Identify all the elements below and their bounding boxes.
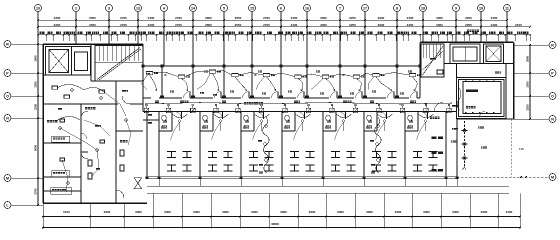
svg-text:3300: 3300	[54, 16, 61, 20]
balcony lines	[147, 178, 509, 193]
main wing top exterior wall	[142, 65, 422, 68]
riser squiggle room 6	[258, 117, 269, 174]
svg-text:14: 14	[191, 7, 195, 11]
elevator shaft left E2	[72, 47, 91, 76]
svg-text:2: 2	[75, 7, 77, 11]
corridor labels	[155, 101, 458, 119]
left block wiring	[55, 84, 131, 192]
svg-text:2400: 2400	[291, 16, 298, 20]
bottom dimension line 2 overall	[42, 222, 521, 229]
svg-text:8: 8	[396, 7, 398, 11]
svg-text:3300: 3300	[222, 210, 229, 214]
upper room small labels	[146, 71, 412, 97]
bathrooms	[159, 112, 418, 132]
svg-text:2900: 2900	[34, 55, 38, 61]
grid bubble column 14	[190, 5, 197, 67]
svg-text:3300: 3300	[104, 210, 111, 214]
grid bubble column 17	[362, 5, 369, 67]
left block interior walls	[43, 44, 143, 203]
right shaft	[450, 44, 480, 64]
left block exterior walls	[43, 44, 147, 203]
svg-text:7.10: 7.10	[519, 148, 524, 151]
grid bubble column 6	[278, 5, 285, 67]
svg-text:17: 17	[363, 7, 367, 11]
svg-text:2400: 2400	[148, 16, 155, 20]
svg-text:10: 10	[36, 7, 40, 11]
svg-text:18: 18	[421, 7, 425, 11]
svg-text:5: 5	[223, 7, 225, 11]
grid bubble column 5	[221, 5, 228, 67]
beds	[167, 152, 438, 172]
grid bubble column 3	[106, 5, 113, 45]
corridor wiring line	[145, 103, 452, 109]
svg-text:R: R	[551, 43, 554, 47]
svg-text:3300: 3300	[54, 23, 61, 27]
svg-text:2100: 2100	[515, 23, 522, 27]
svg-text:3000: 3000	[436, 16, 443, 20]
svg-text:9: 9	[455, 7, 457, 11]
left block equipment	[52, 86, 127, 184]
grid bubble column 8	[394, 5, 401, 67]
svg-text:3000: 3000	[320, 23, 327, 27]
right boundary dashed	[511, 119, 513, 177]
svg-text:2900: 2900	[526, 56, 530, 62]
svg-text:2850: 2850	[205, 16, 212, 20]
hourglass symbol	[134, 178, 141, 189]
grid bubble column 13	[135, 5, 142, 45]
svg-text:3300: 3300	[309, 210, 316, 214]
svg-text:2700: 2700	[34, 188, 38, 194]
svg-text:N: N	[6, 116, 9, 120]
left dimension line	[34, 43, 39, 206]
svg-text:3300: 3300	[251, 210, 258, 214]
grid bubble row P left	[4, 70, 43, 77]
dark equipment bars right rooms	[432, 137, 444, 172]
narrow shaft column	[143, 112, 159, 178]
svg-text:2250: 2250	[349, 23, 356, 27]
svg-text:2700: 2700	[263, 16, 270, 20]
svg-text:5100: 5100	[63, 210, 70, 214]
top dimension line C	[37, 32, 531, 42]
top dimension line B	[37, 23, 531, 28]
grid bubble column 19	[478, 5, 485, 43]
tank room square	[457, 64, 507, 120]
lower room wiring	[171, 113, 434, 140]
elevator shaft left E1	[46, 47, 72, 76]
left block room labels	[47, 90, 128, 194]
svg-text:2550: 2550	[235, 16, 242, 20]
svg-text:2700: 2700	[175, 23, 182, 27]
svg-text:16: 16	[305, 7, 309, 11]
svg-text:3: 3	[108, 7, 110, 11]
svg-text:2900: 2900	[378, 16, 385, 20]
svg-text:2200: 2200	[34, 104, 38, 110]
svg-text:2550: 2550	[89, 23, 96, 27]
svg-text:19: 19	[479, 7, 483, 11]
svg-text:3300: 3300	[452, 210, 459, 214]
right lobby	[420, 58, 461, 112]
corridor top wall	[143, 96, 420, 98]
svg-text:13: 13	[136, 7, 140, 11]
svg-text:11: 11	[505, 7, 509, 11]
grid bubble column 11	[504, 5, 511, 43]
grid bubble column 10	[35, 5, 42, 45]
svg-text:N: N	[551, 117, 554, 121]
upper room doors	[184, 92, 418, 99]
svg-text:2300: 2300	[526, 81, 530, 87]
tiny note right margin	[519, 148, 527, 178]
grid bubble column 7	[337, 5, 344, 67]
svg-text:2200: 2200	[526, 104, 530, 110]
grid bubble row R right	[514, 42, 557, 49]
svg-text:4: 4	[163, 7, 165, 11]
svg-text:46800: 46800	[271, 222, 279, 226]
grid bubble row L left	[4, 202, 43, 209]
svg-text:3000: 3000	[436, 23, 443, 27]
upper room partitions	[162, 67, 397, 98]
right dimension line	[526, 44, 531, 120]
grid bubble column 16	[304, 5, 311, 67]
N gridline wall right block	[457, 118, 514, 120]
grid bubble row N right	[514, 116, 557, 123]
right block labels	[466, 30, 479, 109]
svg-text:6: 6	[280, 7, 282, 11]
top dimension line A	[37, 16, 508, 21]
lower room doors	[174, 112, 428, 120]
left block lobby walls	[43, 44, 143, 104]
svg-text:M: M	[551, 175, 554, 179]
grid bubble column 9	[453, 5, 460, 43]
svg-text:2250: 2250	[465, 16, 472, 20]
svg-text:2700: 2700	[175, 16, 182, 20]
svg-text:7: 7	[339, 7, 341, 11]
lower room labels	[161, 121, 413, 129]
grid bubble row O left	[4, 93, 43, 100]
grid bubble row P right	[514, 70, 557, 77]
svg-text:2300: 2300	[34, 81, 38, 87]
svg-text:R: R	[6, 42, 9, 46]
svg-text:2400: 2400	[148, 23, 155, 27]
svg-text:3300: 3300	[135, 210, 142, 214]
svg-text:3300: 3300	[366, 210, 373, 214]
corridor distribution boxes	[144, 108, 451, 113]
svg-text:3300: 3300	[193, 210, 200, 214]
svg-text:O: O	[551, 94, 554, 98]
svg-text:3300: 3300	[395, 210, 402, 214]
bottom extension lines	[43, 194, 520, 229]
svg-text:2700: 2700	[120, 23, 127, 27]
grid bubble row R left	[4, 41, 43, 48]
corridor bottom wall	[143, 111, 457, 113]
left block door arcs	[81, 96, 130, 198]
svg-text:6000: 6000	[34, 145, 38, 151]
svg-text:2400: 2400	[491, 23, 498, 27]
svg-text:3300: 3300	[481, 210, 488, 214]
grid bubble column 18	[420, 5, 427, 43]
grid bubble column 2	[73, 5, 80, 45]
riser squiggle room 9	[370, 117, 381, 174]
riser feeder dashed line	[451, 121, 487, 170]
svg-text:2550: 2550	[89, 16, 96, 20]
svg-text:2400: 2400	[491, 16, 498, 20]
upper room light fixtures	[146, 70, 421, 78]
svg-text:3300: 3300	[280, 210, 287, 214]
svg-text:2700: 2700	[263, 23, 270, 27]
stairwell left	[95, 46, 143, 82]
upper room wiring arcs	[142, 71, 418, 91]
bottom dimension line 1	[42, 210, 521, 218]
grid bubble row M left	[4, 175, 43, 182]
svg-text:O: O	[6, 94, 9, 98]
grid bubble row M right	[457, 174, 556, 181]
lower room partitions	[147, 112, 457, 178]
svg-text:3300: 3300	[164, 210, 171, 214]
svg-text:2850: 2850	[205, 23, 212, 27]
svg-text:2250: 2250	[465, 23, 472, 27]
right stairwell	[421, 44, 444, 77]
svg-text:2400: 2400	[506, 210, 513, 214]
svg-text:2250: 2250	[349, 16, 356, 20]
svg-text:2900: 2900	[378, 23, 385, 27]
svg-text:2550: 2550	[235, 23, 242, 27]
svg-text:2400: 2400	[407, 23, 414, 27]
svg-text:2700: 2700	[120, 16, 127, 20]
svg-text:15: 15	[250, 7, 254, 11]
svg-text:3300: 3300	[337, 210, 344, 214]
right block exterior walls	[420, 42, 514, 119]
svg-text:3300: 3300	[423, 210, 430, 214]
right elevator	[444, 44, 514, 64]
grid bubble row O right	[514, 93, 557, 100]
lower rooms bottom wall	[146, 176, 459, 179]
svg-text:3000: 3000	[320, 16, 327, 20]
grid bubble row N left	[4, 115, 43, 122]
svg-text:2400: 2400	[407, 16, 414, 20]
svg-text:M: M	[6, 176, 9, 180]
svg-text:2400: 2400	[291, 23, 298, 27]
grid bubble column 15	[249, 5, 256, 67]
grid bubble column 4	[161, 5, 168, 67]
